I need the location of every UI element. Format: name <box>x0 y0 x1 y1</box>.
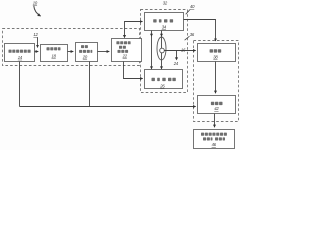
box B1 (controller) <box>5 44 35 62</box>
svg-text:36: 36 <box>190 32 195 37</box>
box B4 <box>112 39 142 62</box>
outer dashed box (light source unit) <box>3 29 140 66</box>
svg-text:26: 26 <box>159 84 165 89</box>
right dashed box (receiver unit) <box>194 41 239 122</box>
box DET (detector) <box>198 44 236 62</box>
beam from cell to detector <box>164 50 195 52</box>
label 36 with leader <box>185 32 195 40</box>
svg-text:32: 32 <box>163 1 168 6</box>
box D1 (first detector) <box>145 13 184 31</box>
wire B1 to B2 <box>35 51 39 53</box>
svg-text:40: 40 <box>190 4 195 9</box>
arrowhead into B4 top <box>123 35 126 38</box>
wire B3 down to bus <box>89 62 91 107</box>
beam left D1 to D2 <box>150 31 153 70</box>
box D2 (second detector) <box>145 70 183 89</box>
box OUT (signal processor) <box>194 130 235 149</box>
wire DET down to CPL <box>215 62 217 94</box>
gas cell ellipse <box>157 37 166 60</box>
wire B2 to B3 <box>68 51 74 53</box>
wire D1 right then down into DET <box>184 20 216 42</box>
box CPL (coupler) <box>198 96 236 114</box>
cell centre circle 16 <box>160 48 165 53</box>
label 16 stub <box>175 47 186 60</box>
svg-text:22: 22 <box>122 53 128 58</box>
svg-text:20: 20 <box>82 55 88 60</box>
inner dashed box (sensor head unit) <box>141 10 188 93</box>
beam right D1 to D2 <box>160 31 163 70</box>
svg-text:16: 16 <box>181 47 186 52</box>
box B3 <box>76 43 98 62</box>
bus wire to coupler box <box>20 106 196 108</box>
wire B4 up then right into D1 <box>125 22 143 38</box>
label 40 with leader <box>186 4 195 14</box>
svg-text:10: 10 <box>33 0 38 5</box>
wire B3 to B4 <box>98 51 110 53</box>
figure label 10 <box>33 0 41 16</box>
wire B4 down right into D2 <box>124 62 143 79</box>
wire CPL down to OUT <box>214 114 216 128</box>
wire B1 down to bus <box>19 62 21 107</box>
box B2 <box>41 45 68 62</box>
svg-text:24: 24 <box>173 61 179 66</box>
label 12 with arrow into junction <box>33 32 38 47</box>
svg-text:12: 12 <box>33 32 38 37</box>
